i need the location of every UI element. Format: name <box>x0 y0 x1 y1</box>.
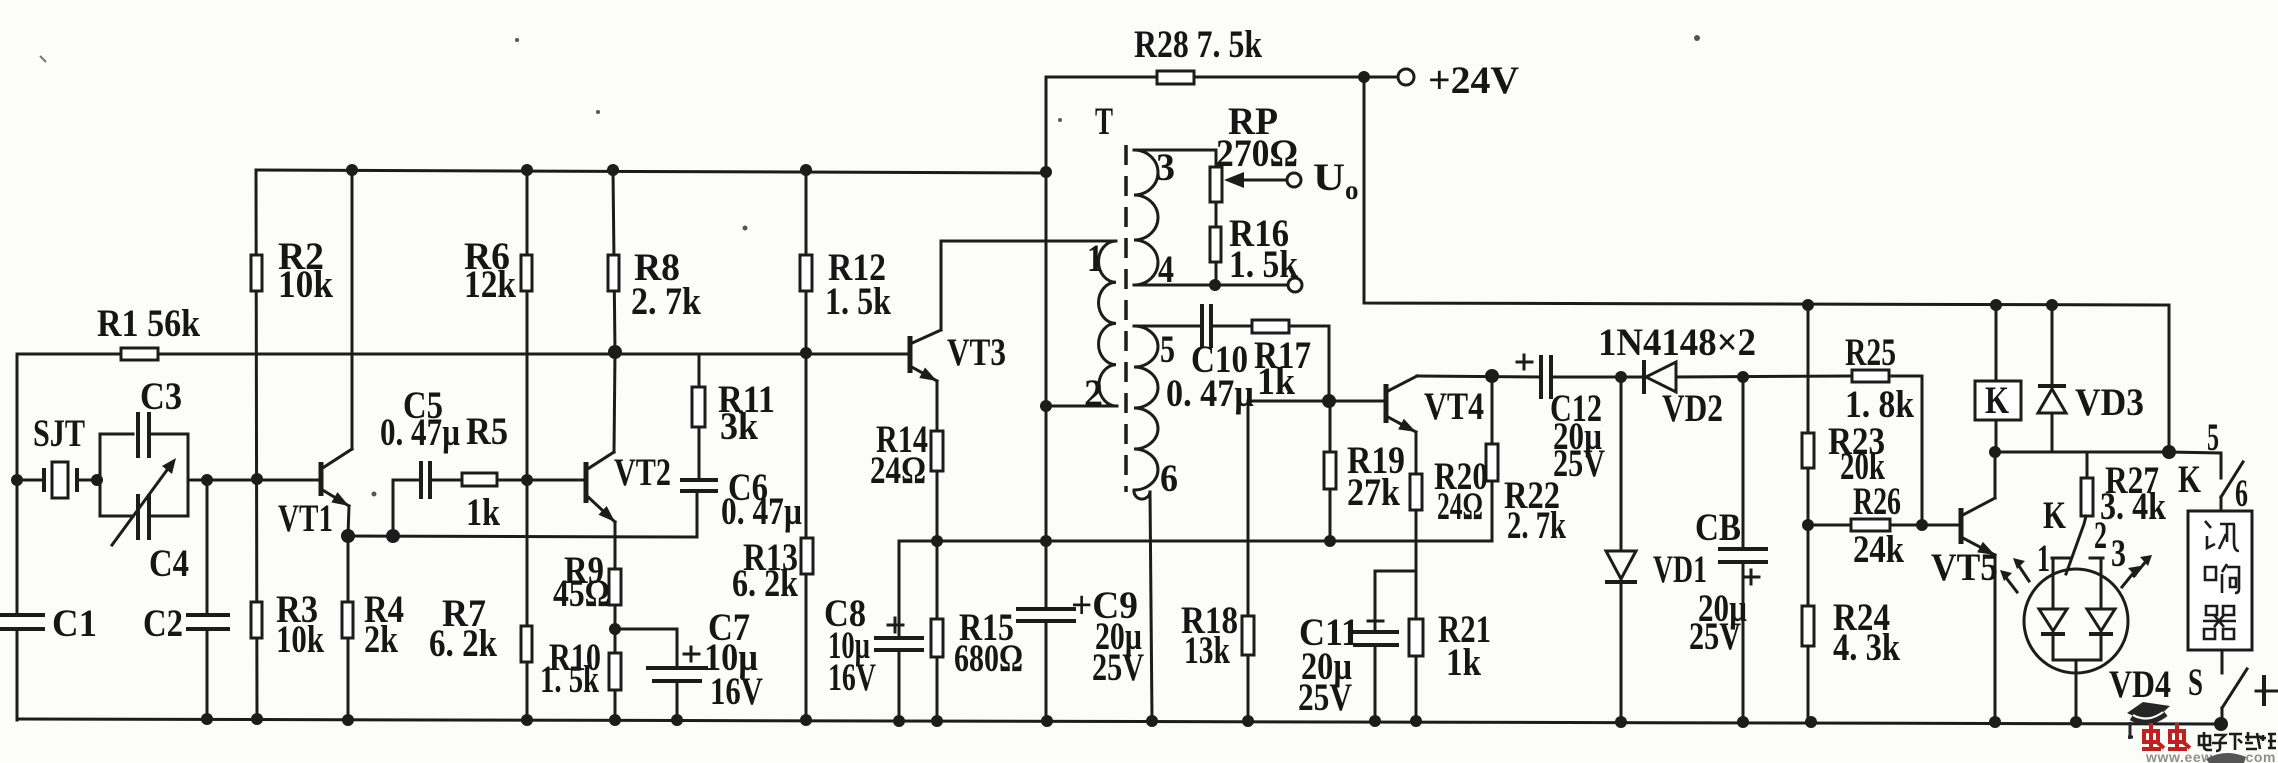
svg-text:24Ω: 24Ω <box>1437 485 1483 528</box>
svg-text:1. 5k: 1. 5k <box>540 658 599 701</box>
svg-text:VD1: VD1 <box>1653 548 1707 591</box>
capacitor C8 <box>874 618 924 652</box>
resistor R17 <box>1252 320 1289 333</box>
svg-text:4. 3k: 4. 3k <box>1833 626 1900 669</box>
resistor R3 <box>251 602 262 638</box>
wire C8 branch <box>898 541 901 720</box>
svg-text:VT4: VT4 <box>1424 385 1484 428</box>
svg-text:25V: 25V <box>1298 676 1352 719</box>
VD4 light arrows right <box>2122 555 2152 587</box>
VD4 pin3 lead <box>2090 557 2103 560</box>
capacitor C6 <box>680 480 718 491</box>
svg-text:+24V: +24V <box>1428 59 1519 102</box>
wire VD3 vertical bottom <box>2051 412 2054 452</box>
wire main supply vertical x1046 <box>1045 77 1048 720</box>
transformer primary winding pins 1-2 <box>1099 241 1118 406</box>
wire C12 to VD2 <box>1551 376 1644 379</box>
capacitor C4 variable <box>112 458 176 545</box>
resistor R16 <box>1210 227 1221 262</box>
wire C5 to R5 to VT2 base <box>430 479 586 482</box>
wire R18 vertical <box>1247 401 1250 720</box>
svg-text:VD2: VD2 <box>1662 387 1723 430</box>
wire VT5 emitter vertical <box>1994 555 1997 722</box>
svg-text:1k: 1k <box>1257 360 1295 403</box>
svg-text:6. 2k: 6. 2k <box>732 562 798 605</box>
wire relay row y452 <box>1995 451 2169 454</box>
capacitor CB <box>1718 547 1768 584</box>
svg-text:25V: 25V <box>1092 646 1144 689</box>
wire top supply rail <box>256 170 1046 173</box>
svg-text:12k: 12k <box>464 263 516 306</box>
wire bias row y541 <box>899 540 1491 543</box>
capacitor C10 <box>1202 304 1211 348</box>
wire RP to R16 <box>1215 202 1218 227</box>
resistor R15 <box>931 619 943 657</box>
svg-text:SJT: SJT <box>33 412 85 455</box>
wire VT1 emitter row <box>348 536 697 537</box>
resistor R28 <box>1157 71 1194 84</box>
svg-text:K: K <box>1985 379 2010 422</box>
diode VD3 <box>2038 386 2066 413</box>
svg-text:VT5: VT5 <box>1931 546 1998 589</box>
wire R26 row to VT5 base <box>1808 524 1961 527</box>
wire R6-R7 vertical <box>526 170 529 720</box>
capacitor C1 <box>0 613 45 631</box>
svg-text:S: S <box>2188 661 2203 704</box>
resistor R4 <box>342 602 353 638</box>
wire R4 vertical <box>347 536 350 720</box>
svg-text:6: 6 <box>1160 457 1178 500</box>
wire C2 vertical <box>206 480 209 720</box>
VD4 light arrows left <box>2000 558 2029 592</box>
resistor R7 <box>521 626 532 662</box>
svg-text:16V: 16V <box>710 670 763 713</box>
resistor R26 <box>1851 519 1890 531</box>
svg-text:CB: CB <box>1695 506 1741 549</box>
wire S to ground rail <box>2221 708 2224 724</box>
resistor R13 <box>801 538 813 574</box>
wire R19 vertical <box>1329 401 1332 541</box>
transformer T core <box>1124 145 1128 492</box>
capacitor C9 <box>1016 607 1076 623</box>
svg-text:R28 7. 5k: R28 7. 5k <box>1134 23 1262 66</box>
LED assembly VD4 circle <box>2024 569 2128 673</box>
battery line to edge <box>2256 690 2278 693</box>
resistor R18 <box>1242 616 1254 655</box>
svg-text:2. 7k: 2. 7k <box>1507 504 1566 547</box>
svg-text:C4: C4 <box>149 542 189 585</box>
wire R1 feedback row <box>17 353 910 356</box>
crystal SJT <box>44 462 77 498</box>
wire C11 branch <box>1375 571 1416 720</box>
resistor R21 <box>1409 619 1423 656</box>
svg-text:1. 5k: 1. 5k <box>1229 243 1298 286</box>
capacitor C12 <box>1517 355 1551 399</box>
wire VT4 collector row <box>1417 376 1541 377</box>
resistor R14 <box>931 431 943 471</box>
buzzer text xiang <box>2205 564 2239 593</box>
svg-text:1k: 1k <box>466 491 500 534</box>
svg-text:10k: 10k <box>278 263 333 306</box>
wire K contact 5 stub <box>2169 452 2221 478</box>
wire C5 branch <box>393 480 421 536</box>
wire crystal input row <box>17 479 44 482</box>
capacitor C3 <box>138 412 149 458</box>
svg-text:3: 3 <box>2111 532 2126 575</box>
wire transformer pin3 to RP <box>1134 150 1216 167</box>
svg-text:R1 56k: R1 56k <box>97 302 200 345</box>
svg-text:6. 2k: 6. 2k <box>429 622 497 665</box>
wire VT2 collector vertical <box>614 352 615 452</box>
diode VD1 <box>1605 551 1637 582</box>
wire bottom ground rail <box>17 719 2221 724</box>
capacitor C5 <box>421 461 430 499</box>
wire contact 6 to buzzer <box>2220 497 2223 511</box>
svg-text:27k: 27k <box>1347 471 1400 514</box>
svg-text:0. 47µ: 0. 47µ <box>1166 372 1254 415</box>
wire C6 down to emitter row <box>696 491 699 537</box>
VD4 left diode <box>2039 558 2067 660</box>
svg-text:13k: 13k <box>1184 629 1230 672</box>
svg-text:0. 47µ: 0. 47µ <box>721 490 802 533</box>
speck marks <box>40 35 1700 497</box>
wire VT2 emitter to R9 R10 <box>614 522 617 720</box>
svg-text:1: 1 <box>2037 537 2050 580</box>
wire pin4 row to terminal <box>1134 284 1287 287</box>
watermark chongchong red <box>2142 723 2190 749</box>
wire crystal to box <box>77 479 100 482</box>
svg-text:C2: C2 <box>143 602 183 645</box>
wire VT5 collector vertical <box>1994 452 1997 498</box>
wire VT4 emitter R20 <box>1415 432 1418 720</box>
svg-text:K: K <box>2043 494 2066 537</box>
wire R23 R24 vertical <box>1807 305 1810 722</box>
svg-text:25V: 25V <box>1689 615 1741 658</box>
capacitor C7 <box>646 647 708 683</box>
svg-text:o: o <box>1345 175 1359 205</box>
svg-text:16V: 16V <box>828 656 876 699</box>
svg-text:1. 8k: 1. 8k <box>1845 383 1914 426</box>
C3 C4 parallel box <box>100 434 133 480</box>
transistor VT2 <box>586 452 619 526</box>
resistor R19 <box>1324 452 1336 489</box>
svg-text:1N4148×2: 1N4148×2 <box>1598 321 1756 364</box>
svg-text:2: 2 <box>1084 372 1103 415</box>
resistor R1 <box>121 348 158 360</box>
svg-text:VD4: VD4 <box>2109 663 2171 706</box>
wire VD1 vertical <box>1620 377 1623 720</box>
wire R28 supply row <box>1046 76 1398 79</box>
wire VT3 collector to transformer pin1 <box>941 241 1116 330</box>
svg-text:R5: R5 <box>466 410 508 453</box>
resistor R12 <box>800 255 812 291</box>
K contact blade to VD4 pin2 <box>2066 516 2086 574</box>
svg-text:3: 3 <box>1156 146 1175 189</box>
svg-text:1. 5k: 1. 5k <box>825 280 891 323</box>
svg-text:45Ω: 45Ω <box>553 572 610 615</box>
battery bar <box>2262 677 2266 704</box>
transformer secondary winding pins 5-6 <box>1134 326 1158 499</box>
wire transformer pin2 <box>1046 405 1117 408</box>
svg-text:K: K <box>2178 458 2201 501</box>
svg-text:VT2: VT2 <box>614 451 671 494</box>
svg-text:T: T <box>1095 100 1113 143</box>
svg-text:2. 7k: 2. 7k <box>631 280 701 323</box>
svg-text:R26: R26 <box>1853 480 1901 523</box>
wire RP wiper <box>1240 179 1286 182</box>
svg-text:VT3: VT3 <box>947 331 1006 374</box>
wire VD3 vertical top <box>2051 305 2054 386</box>
transistor VT3 <box>910 330 941 386</box>
wire C7 branch <box>615 629 677 720</box>
transistor VT5 <box>1961 498 1998 560</box>
watermark site name <box>2199 732 2276 751</box>
svg-text:24k: 24k <box>1853 528 1904 571</box>
wire R25 to R26 drop <box>1889 376 1922 525</box>
resistor R23 <box>1802 433 1814 468</box>
buzzer text xun <box>2205 521 2239 551</box>
wire R16 bottom <box>1215 262 1218 285</box>
svg-text:5: 5 <box>1160 328 1175 371</box>
resistor R10 <box>609 653 621 690</box>
wire relay coil top <box>1995 305 1998 381</box>
wire R8 vertical <box>613 170 615 352</box>
svg-text:270Ω: 270Ω <box>1216 132 1298 175</box>
wire relay coil bottom <box>1995 420 1998 452</box>
svg-text:4: 4 <box>1158 248 1174 291</box>
watermark swoosh <box>2206 753 2246 763</box>
resistor R27 <box>2081 478 2093 516</box>
resistor R11 <box>692 387 705 427</box>
wire transformer pin6 vertical <box>1150 492 1152 720</box>
svg-text:0. 47µ: 0. 47µ <box>380 411 460 454</box>
resistor R6 <box>521 255 532 291</box>
svg-text:C1: C1 <box>52 602 97 645</box>
resistor R5 <box>462 473 497 486</box>
capacitor C2 <box>186 613 230 631</box>
svg-text:10k: 10k <box>276 618 324 661</box>
wire S blade <box>2222 669 2247 708</box>
svg-text:VD3: VD3 <box>2075 381 2144 424</box>
capacitor C11 <box>1353 614 1399 647</box>
wire R11 branch <box>698 354 701 480</box>
svg-text:U: U <box>1313 156 1345 199</box>
wire R22 vertical <box>1491 376 1494 541</box>
resistor R2 <box>251 255 262 291</box>
wire R27 drop <box>2086 452 2089 478</box>
transistor VT1 <box>321 449 352 536</box>
wire buzzer to S switch <box>2221 650 2224 673</box>
svg-text:3. 4k: 3. 4k <box>2100 485 2166 528</box>
wire left vertical rail <box>16 354 19 720</box>
svg-text:1: 1 <box>1087 237 1103 280</box>
buzzer text qi <box>2203 606 2236 639</box>
wire VT4 base row <box>1248 400 1386 403</box>
svg-text:R25: R25 <box>1845 331 1896 374</box>
resistor R24 <box>1802 606 1814 646</box>
svg-text:5: 5 <box>2207 416 2219 459</box>
wire C10 to R17 to corner <box>1211 326 1329 401</box>
wire pin5 row C10 R17 <box>1134 325 1202 328</box>
transformer secondary winding pins 3-4 <box>1134 150 1158 285</box>
buzzer box <box>2188 511 2252 650</box>
resistor R20 <box>1410 474 1422 510</box>
wire VT3 emitter R14 R15 vertical <box>936 381 939 720</box>
svg-text:VT1: VT1 <box>278 497 333 540</box>
terminal +24V <box>1398 69 1414 85</box>
resistor R9 <box>609 569 621 605</box>
svg-text:25V: 25V <box>1553 442 1605 485</box>
potentiometer RP <box>1210 167 1244 202</box>
VD4 bottom bus <box>2053 659 2101 662</box>
wire VD4 tail <box>2075 660 2078 722</box>
svg-text:C3: C3 <box>140 375 182 418</box>
svg-text:1k: 1k <box>1446 641 1481 684</box>
diode VD2 <box>1644 360 1676 394</box>
svg-text:6: 6 <box>2235 472 2248 515</box>
wire VD2 to R25 row <box>1674 376 1852 377</box>
wire K contact blade <box>2221 462 2243 497</box>
svg-text:2k: 2k <box>364 618 398 661</box>
wire VT1 collector vertical <box>351 170 354 449</box>
wire R12-R13 vertical <box>805 170 808 720</box>
wire box to VT1 base <box>188 479 321 482</box>
relay K coil box <box>1975 381 2021 420</box>
VD4 pin1 lead <box>2052 557 2071 560</box>
svg-text:2: 2 <box>2094 514 2107 557</box>
watermark cap <box>2127 702 2170 739</box>
resistor R8 <box>608 255 619 291</box>
terminal pin4 <box>1288 278 1302 292</box>
wire CB vertical <box>1742 377 1745 722</box>
wire +24V drop to right rail <box>1364 77 2169 452</box>
wire R2-R3 vertical <box>256 170 257 720</box>
VD4 right diode <box>2087 558 2115 660</box>
transistor VT4 <box>1386 376 1419 437</box>
svg-text:3k: 3k <box>720 405 758 448</box>
terminal Uo <box>1287 173 1301 187</box>
svg-text:24Ω: 24Ω <box>870 449 926 492</box>
resistor R25 <box>1852 370 1889 382</box>
svg-text:680Ω: 680Ω <box>954 637 1023 680</box>
resistor R22 <box>1486 444 1498 481</box>
